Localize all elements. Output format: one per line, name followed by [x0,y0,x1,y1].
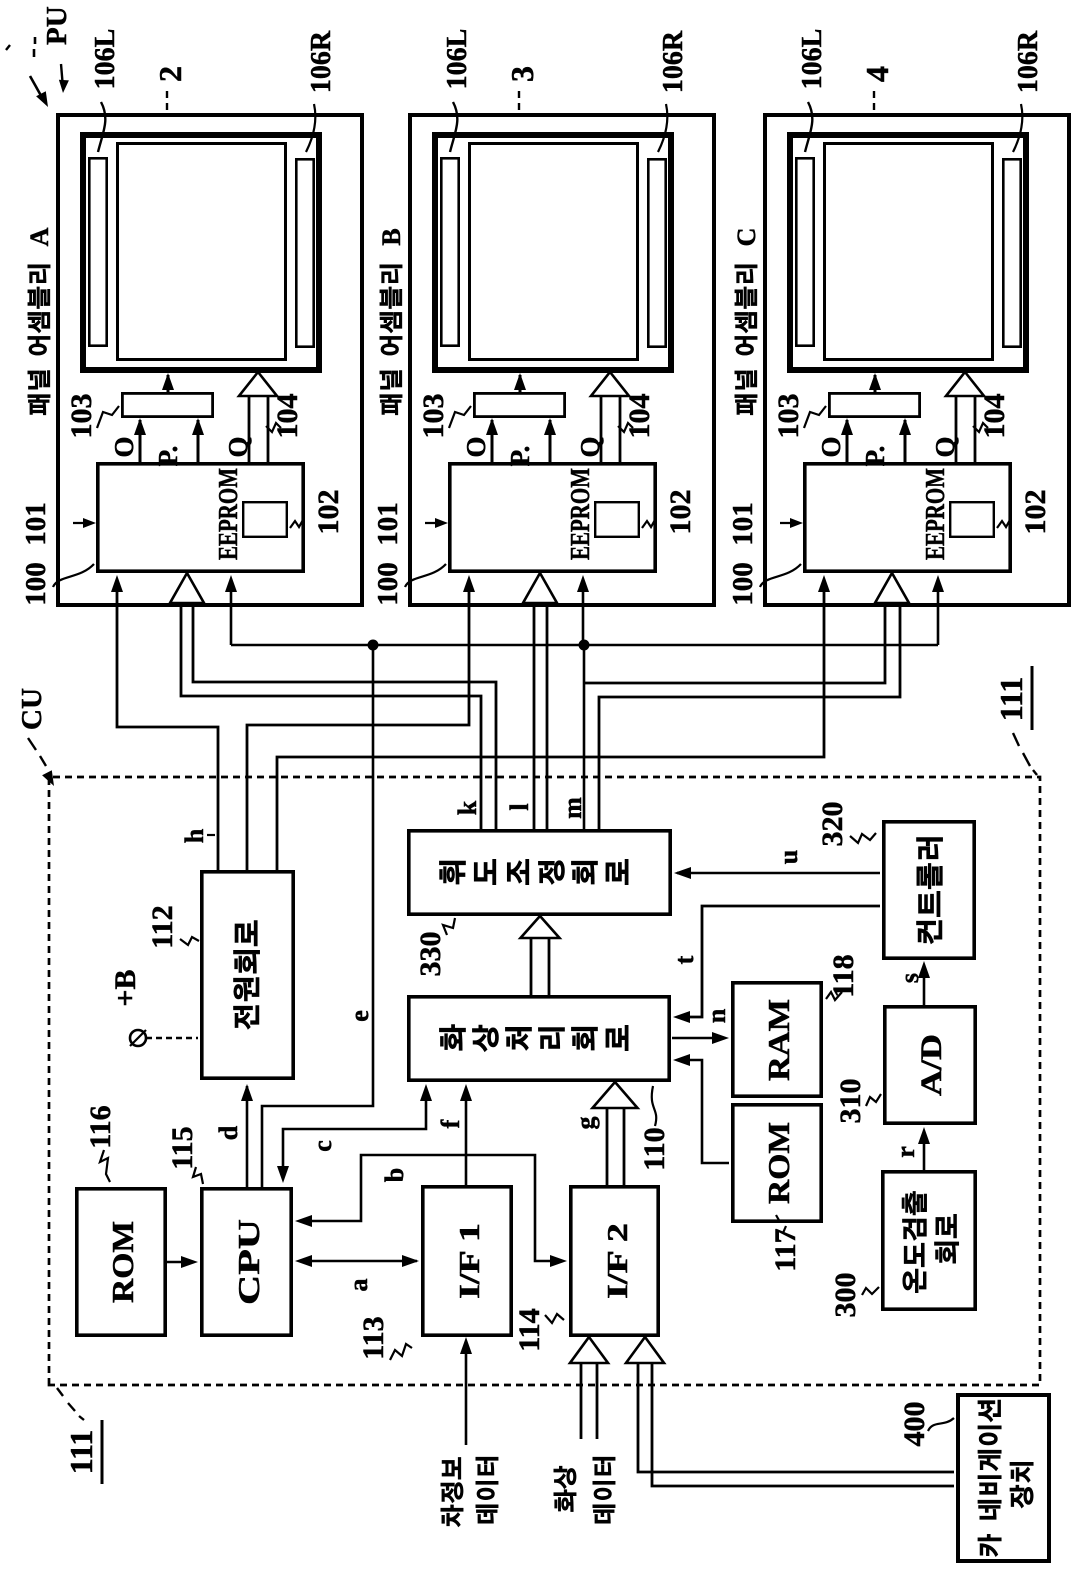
svg-text:P.: P. [153,446,183,467]
svg-text:2: 2 [152,66,188,82]
svg-text:102: 102 [1019,490,1052,535]
leader arrow 101 panel B [425,522,444,524]
LCD screen panel A [118,144,286,360]
bus car navigation to I/F 2 [638,1363,954,1472]
svg-text:3: 3 [504,66,540,82]
wire O driver to 103 panel C [846,420,849,462]
buffer box 103 panel A [122,393,212,416]
svg-text:100: 100 [727,562,759,606]
svg-text:103: 103 [417,394,450,439]
wire 103 to module panel C [874,375,877,392]
EEPROM chip 102 square panel B [595,502,639,537]
backlight lamp 106R panel C [1003,159,1020,346]
svg-text:I/F 1: I/F 1 [454,1223,486,1299]
svg-text:O: O [461,436,491,457]
brightness adjusting circuit 330 text [439,859,628,884]
svg-text:u: u [774,850,803,864]
display module 2 box [83,135,319,370]
svg-text:Q: Q [930,436,960,457]
CPU 115 box [202,1189,291,1335]
svg-text:104: 104 [271,394,304,439]
svg-text:106L: 106L [90,29,121,90]
wire n image processing to RAM [672,1037,725,1040]
wire s A/D to controller [923,965,926,1005]
svg-text:+B: +B [109,969,142,1006]
backlight lamp 106L panel B [441,158,458,345]
I/F 1 113 box [423,1187,511,1335]
panel title A [28,265,50,415]
wire 103 to module panel A [167,375,170,392]
display module 3 box [435,135,671,370]
svg-text:Q: Q [575,436,605,457]
svg-text:310: 310 [834,1079,867,1124]
I/F 2 114 box [571,1187,658,1335]
svg-text:b: b [380,1168,409,1182]
wire O driver to 103 panel B [491,420,494,462]
svg-text:g: g [571,1117,600,1130]
bus brightness circuit to driver C [584,599,885,683]
svg-text:Q: Q [223,436,253,457]
svg-text:P.: P. [505,446,535,467]
svg-text:100: 100 [372,562,404,606]
car info data input to I/F 1 [465,1341,468,1445]
A/D converter 310 box [885,1007,975,1123]
svg-text:330: 330 [414,932,447,977]
svg-text:P.: P. [860,446,890,467]
backlight lamp 106L panel C [796,158,813,345]
power wire to panel C [277,579,824,870]
svg-text:103: 103 [772,394,805,439]
trunk branch to driver A [230,579,233,645]
svg-text:A: A [25,227,54,246]
svg-text:102: 102 [312,490,345,535]
svg-text:CU: CU [16,688,48,730]
bus Q driver to module panel B [600,390,603,462]
trunk branch to driver B [582,579,585,645]
car navigation device text [978,1400,1001,1556]
backlight lamp 106L panel A [89,158,106,345]
bus Q driver to module panel C [955,390,958,462]
svg-text:h: h [180,828,209,843]
svg-text:l: l [505,803,534,810]
svg-text:EEPROM: EEPROM [565,468,595,560]
buffer box 103 panel B [474,393,564,416]
svg-text:113: 113 [357,1316,390,1359]
svg-text:115: 115 [166,1126,199,1169]
leader 100 panel A [53,564,94,587]
wire t controller to image processing circuit [677,906,880,1017]
svg-text:320: 320 [816,802,849,847]
wire P driver to 103 panel A [197,420,200,462]
display module 4 box [790,135,1026,370]
bus l brightness circuit to driver B [533,599,536,829]
panel assembly C outer box 4 [765,115,1069,605]
svg-text:102: 102 [664,490,697,535]
junction dot m [579,640,590,651]
driver circuit 101 box panel B [450,464,655,571]
bus Q driver to module panel A [248,390,251,462]
svg-text:O: O [816,436,846,457]
svg-text:111: 111 [63,1430,99,1474]
svg-text:400: 400 [898,1402,931,1447]
svg-text:104: 104 [978,394,1011,439]
wire d CPU to power circuit [246,1086,249,1187]
svg-text:4: 4 [859,66,895,82]
wire c CPU to image processing circuit [283,1088,426,1179]
power wire h to panel A [117,579,218,870]
svg-text:112: 112 [146,905,179,948]
svg-text:ROM: ROM [105,1221,140,1303]
svg-text:d: d [214,1125,243,1140]
car info data text [441,1457,463,1526]
panel title B [380,265,402,415]
car navigation device 400 box [958,1395,1049,1561]
svg-text:c: c [308,1140,337,1152]
wire a CPU to I/F 1 [299,1260,417,1263]
svg-text:s: s [895,973,924,983]
svg-text:t: t [670,955,699,964]
buffer box 103 panel C [829,393,919,416]
image data bus to I/F 2 [580,1363,583,1439]
leader dashes CU to border corner [28,738,36,750]
controller 320 box [884,822,974,958]
svg-text:a: a [344,1279,373,1292]
control unit CU dashed border 111 [49,777,1040,1385]
leader dashes 111 to border corner [1013,733,1019,746]
bus image processing to brightness circuit [530,936,533,995]
svg-text:O: O [109,436,139,457]
leader marks PU [6,45,10,50]
wire m brightness circuit to trunk [583,645,586,829]
wire P driver to 103 panel B [549,420,552,462]
LCD screen panel B [470,144,638,360]
svg-text:106R: 106R [306,30,337,93]
leader 100 panel C [760,564,801,587]
image processing circuit 110 text [439,1025,628,1052]
svg-text:300: 300 [829,1273,862,1318]
svg-text:r: r [891,1146,920,1158]
wire image processing to ROM 117 [677,1060,729,1163]
svg-text:117: 117 [769,1228,802,1271]
svg-text:101: 101 [20,502,52,546]
svg-text:106L: 106L [442,29,473,90]
wire f I/F 1 to image processing circuit [465,1088,468,1185]
wire u controller to brightness circuit [677,872,880,875]
svg-text:EEPROM: EEPROM [920,468,950,560]
power wire to panel B [247,579,469,870]
ROM 117 box [733,1105,821,1221]
image data text [554,1466,576,1511]
svg-text:110: 110 [638,1127,671,1170]
wire ROM to CPU [167,1261,194,1264]
panel title C [735,265,757,415]
svg-text:106R: 106R [1013,30,1044,93]
wire e CPU to data trunk [262,647,373,1187]
EEPROM chip 102 square panel A [243,502,287,537]
svg-text:104: 104 [623,394,656,439]
wire P driver to 103 panel C [904,420,907,462]
svg-text:100: 100 [20,562,52,606]
svg-text:ROM: ROM [761,1122,796,1204]
svg-text:CPU: CPU [231,1219,266,1305]
svg-text:118: 118 [827,954,860,997]
svg-text:f: f [436,1119,465,1128]
svg-text:106R: 106R [658,30,689,93]
data trunk line to panel drivers [231,644,938,647]
wire O driver to 103 panel A [139,420,142,462]
temperature detection circuit 300 box [883,1172,975,1309]
svg-text:EEPROM: EEPROM [213,468,243,560]
bus k brightness circuit to driver A [181,599,481,829]
svg-text:k: k [453,800,482,815]
svg-text:C: C [732,228,761,247]
svg-text:A/D: A/D [915,1034,948,1096]
svg-text:e: e [345,1010,374,1022]
power circuit 112 box [202,872,293,1078]
driver circuit 101 box panel C [805,464,1010,571]
LCD screen panel C [825,144,993,360]
svg-text:n: n [702,1008,731,1023]
+B terminal [130,1030,146,1046]
EEPROM chip 102 square panel C [950,502,994,537]
backlight lamp 106R panel A [296,159,313,346]
svg-text:116: 116 [84,1105,117,1148]
RAM 118 box [733,983,821,1096]
svg-text:RAM: RAM [761,999,796,1081]
svg-text:106L: 106L [797,29,828,90]
panel assembly B outer box 3 [410,115,714,605]
trunk branch to driver C [937,579,940,645]
junction dot e [368,640,379,651]
svg-text:101: 101 [727,502,759,546]
panel assembly A outer box 2 [58,115,362,605]
power circuit 112 text [234,921,260,1030]
wire b CPU to I/F 2 [299,1155,563,1261]
image processing circuit 110 box [409,997,669,1080]
svg-text:PU: PU [41,6,73,45]
svg-text:B: B [377,228,406,245]
svg-text:103: 103 [65,394,98,439]
brightness adjusting circuit 330 box [409,831,670,914]
driver circuit 101 box panel A [98,464,303,571]
wire r temperature circuit to A/D [923,1131,926,1170]
backlight lamp 106R panel B [648,159,665,346]
svg-text:114: 114 [513,1308,546,1351]
controller 320 text [917,838,943,944]
temperature detection circuit 300 text [902,1191,927,1292]
leader arrow 101 panel A [73,522,92,524]
leader 100 panel B [405,564,446,587]
wire 103 to module panel B [519,375,522,392]
leader dashes 111 bottom to border corner [57,1388,63,1396]
svg-text:111: 111 [993,677,1029,721]
svg-text:m: m [558,797,587,819]
bus g I/F 2 to image processing circuit [606,1106,609,1185]
svg-text:101: 101 [372,502,404,546]
svg-text:I/F 2: I/F 2 [602,1223,634,1299]
ROM 116 box [77,1189,165,1335]
leader arrow 101 panel C [780,522,799,524]
